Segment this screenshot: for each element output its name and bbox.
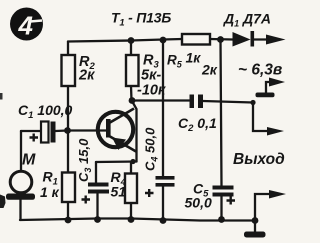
- svg-text:М: М: [22, 152, 36, 169]
- svg-text:Выход: Выход: [233, 151, 285, 168]
- svg-text:4: 4: [18, 11, 34, 41]
- svg-text:5к-: 5к-: [141, 68, 161, 84]
- svg-text:50,0: 50,0: [185, 195, 212, 211]
- svg-text:С3 15,0: С3 15,0: [76, 138, 93, 182]
- svg-text:51: 51: [111, 184, 127, 200]
- svg-text:1 к: 1 к: [40, 184, 60, 200]
- svg-text:~ 6,3в: ~ 6,3в: [238, 62, 282, 79]
- svg-text:С4 50,0: С4 50,0: [143, 127, 160, 171]
- svg-text:1к: 1к: [186, 50, 202, 66]
- svg-text:Д1 Д7А: Д1 Д7А: [223, 11, 271, 29]
- svg-text:-10к: -10к: [137, 83, 166, 99]
- svg-text:2к: 2к: [78, 68, 95, 84]
- svg-text:2к: 2к: [201, 62, 218, 78]
